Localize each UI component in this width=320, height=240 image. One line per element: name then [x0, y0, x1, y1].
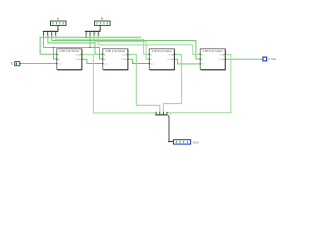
wire row R2 net A3 to chip3 pin1: [56, 35, 150, 54]
svg-text:2: 2: [53, 33, 54, 35]
svg-text:S_M: S_M: [169, 54, 174, 56]
input C box: [11, 62, 21, 66]
svg-text:4 Bit Full Adder: 4 Bit Full Adder: [152, 50, 173, 53]
wire carry4 chip4 to C Out: [225, 58, 263, 60]
svg-text:1: 1: [91, 33, 92, 35]
wire row R4 net B2 to chip3 pin2: [94, 35, 149, 59]
wire carry2 chip2 to chip3: [128, 59, 149, 63]
input B box: [95, 17, 111, 26]
wire sum S3: [167, 54, 231, 112]
svg-text:C Out: C Out: [75, 58, 81, 61]
wire row R6 net B3 to chip4 pin1: [98, 35, 200, 54]
output C Out box: [262, 57, 276, 61]
svg-text:S_M: S_M: [220, 54, 225, 56]
svg-text:SUM: SUM: [193, 140, 199, 144]
svg-text:0-3: 0-3: [169, 114, 172, 116]
svg-text:C in: C in: [104, 64, 108, 66]
input A box: [51, 17, 67, 26]
svg-text:0: 0: [44, 33, 45, 35]
chip U2 full adder: [102, 49, 129, 70]
svg-text:C in: C in: [201, 64, 205, 66]
wire carry-in C: [20, 63, 57, 65]
wire sum S0: [82, 54, 156, 113]
output SUM display: [173, 140, 199, 145]
wire carry1 chip1 to chip2: [82, 59, 103, 63]
svg-text:C Out: C Out: [268, 57, 276, 61]
svg-text:S_M: S_M: [122, 54, 127, 56]
splitter SUM merge: [155, 112, 171, 116]
svg-text:3: 3: [57, 33, 58, 35]
svg-text:3: 3: [99, 33, 100, 35]
junction B0: [85, 37, 86, 38]
svg-text:S_M: S_M: [76, 54, 81, 56]
chip U1 full adder: [56, 49, 83, 70]
wire sum S1: [128, 54, 160, 112]
wire row R1 net B0: [40, 35, 141, 54]
splitter A: [43, 31, 59, 36]
wire row R7 net A0 to chip1 pin2 and net B1 to chip2 pin2: [44, 35, 103, 59]
svg-text:B: B: [101, 17, 103, 21]
svg-text:4 Bit Full Adder: 4 Bit Full Adder: [105, 50, 126, 53]
svg-text:1: 1: [49, 33, 50, 35]
svg-text:A: A: [57, 17, 59, 21]
wire row R5 net A1 to chip2 pin1: [48, 35, 103, 54]
svg-text:C Out: C Out: [121, 58, 127, 61]
svg-text:2: 2: [95, 33, 96, 35]
svg-text:C Out: C Out: [168, 58, 174, 61]
svg-text:C in: C in: [151, 64, 155, 66]
junction B1: [89, 47, 90, 48]
chip U4 full adder: [199, 49, 226, 70]
bus wire B to splitter: [99, 25, 101, 31]
svg-text:4 Bit Full Adder: 4 Bit Full Adder: [59, 50, 80, 53]
svg-text:0: 0: [87, 33, 88, 35]
wire carry3 chip3 to chip4: [174, 59, 200, 64]
junction A0 branch: [53, 47, 54, 48]
svg-text:4 Bit Full Adder: 4 Bit Full Adder: [202, 50, 223, 53]
chip U3 full adder: [149, 49, 176, 70]
wire sum S2: [163, 54, 181, 112]
wire row R3 net A2 to chip4 pin2: [52, 35, 200, 59]
svg-text:C in: C in: [58, 64, 62, 66]
svg-text:C Out: C Out: [218, 58, 224, 61]
bus wire splitter to SUM display: [168, 115, 174, 141]
splitter B: [85, 31, 101, 36]
bus wire A to splitter: [57, 25, 59, 31]
